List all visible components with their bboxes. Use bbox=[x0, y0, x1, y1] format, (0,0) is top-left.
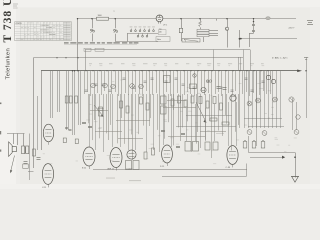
wire selector bus lower bbox=[115, 41, 158, 43]
switch S1a contact bbox=[92, 19, 94, 29]
wire bottom loop bbox=[162, 176, 247, 178]
tube V2 output UL bbox=[42, 164, 53, 185]
voltage selector taps upper bbox=[130, 26, 155, 31]
tube V8 top view bbox=[201, 87, 206, 92]
tone arm bbox=[11, 156, 15, 173]
wire drop x239 bbox=[239, 30, 241, 48]
junction bbox=[77, 18, 78, 19]
wire bus C left corner bbox=[85, 50, 87, 71]
wire bbox=[171, 94, 173, 147]
wire pair bbox=[72, 71, 74, 135]
resistor R10 bbox=[184, 100, 187, 107]
rectifier tube U1 bbox=[156, 15, 163, 22]
wire bbox=[236, 102, 238, 146]
resistor R23 bbox=[152, 148, 155, 155]
switch contact K6 bbox=[262, 131, 267, 136]
wire right upper bbox=[292, 98, 294, 130]
resistor R22 bbox=[144, 152, 147, 159]
resistor R5 bbox=[69, 96, 72, 103]
resistor R11 bbox=[191, 96, 194, 103]
wire bbox=[248, 71, 250, 128]
wire bbox=[163, 94, 165, 145]
wire drop x41 bbox=[41, 71, 43, 150]
switch contact K2 bbox=[256, 98, 261, 103]
mains plug symbol bbox=[307, 20, 313, 22]
wire bbox=[244, 71, 246, 128]
resistor R25 bbox=[63, 138, 66, 143]
trimmer capacitor bbox=[139, 84, 144, 89]
wire bottom-left bus bbox=[7, 133, 25, 135]
switch contact K7 bbox=[294, 130, 299, 135]
wire drop a bbox=[13, 134, 15, 145]
resistor R9 bbox=[178, 96, 181, 103]
label bottom1 bbox=[106, 178, 115, 179]
wire selector riser bbox=[127, 33, 129, 41]
capacitor C1 pair bbox=[253, 19, 255, 25]
scale lamp row bbox=[182, 39, 200, 42]
pickup arrow bbox=[282, 156, 285, 159]
resistor R16 bbox=[199, 97, 202, 104]
label fuse block bbox=[159, 30, 167, 35]
wire bottom bus bbox=[93, 169, 247, 171]
IF transformer T1 bbox=[161, 96, 167, 104]
junction dots bus B left bbox=[72, 70, 73, 71]
wire selector bus upper bbox=[127, 33, 158, 35]
cap C8 bbox=[176, 146, 180, 148]
resistor R21 bbox=[222, 122, 229, 125]
tube V6 bbox=[162, 145, 173, 163]
wire bbox=[128, 94, 130, 150]
svg-text:4× ABC 1 + AZ 1: 4× ABC 1 + AZ 1 bbox=[272, 57, 288, 60]
resistor R14 bbox=[140, 97, 143, 104]
coil L2 with core bbox=[99, 107, 103, 116]
wire bbox=[153, 94, 155, 150]
wire riser x243 bbox=[243, 50, 245, 71]
caption text row under table bbox=[64, 42, 138, 45]
wire pair bbox=[78, 71, 80, 125]
junction bbox=[253, 18, 254, 19]
output transformer Tr bbox=[22, 146, 25, 154]
wire right link2 bbox=[248, 126, 284, 128]
wire bbox=[205, 108, 207, 141]
wire antenna drop bbox=[306, 57, 308, 118]
wire pair bbox=[57, 71, 59, 112]
resistor R13 bbox=[126, 106, 129, 113]
paper lighter top edge bbox=[0, 0, 320, 7]
junction blob bbox=[239, 38, 241, 40]
cap C6 bbox=[161, 130, 165, 132]
junction blob2 bbox=[240, 38, 242, 40]
cap C10 bbox=[37, 157, 41, 159]
wire bbox=[268, 71, 270, 128]
wire drop x37 bbox=[37, 96, 39, 150]
resistor R6 bbox=[75, 96, 78, 103]
wire bus C corner right bbox=[250, 50, 252, 71]
junction bbox=[115, 18, 116, 19]
wire rectifier to right bbox=[163, 18, 296, 20]
diagonal pot arrow 2 bbox=[196, 102, 206, 122]
heater ladder row2 bbox=[197, 32, 209, 34]
wire bus B main bbox=[41, 70, 299, 72]
wire links band bbox=[90, 101, 226, 139]
resistor R1 heater dropper bbox=[97, 17, 109, 20]
wire link2 bbox=[176, 126, 236, 128]
junction bbox=[91, 18, 92, 19]
label boxes on bus C bbox=[84, 48, 91, 51]
wire to rectifier bbox=[109, 18, 157, 20]
capacitor ticks on comb bbox=[85, 78, 265, 91]
tube V11 small bbox=[271, 79, 275, 83]
resistor R12 bbox=[120, 101, 123, 108]
cap C14 ticks bbox=[65, 127, 68, 129]
bus B arrow end bbox=[297, 70, 302, 73]
tube V1 UCH bbox=[43, 124, 53, 142]
wire bbox=[103, 94, 105, 152]
svg-text:T 738 U: T 738 U bbox=[2, 0, 14, 43]
wire bbox=[256, 71, 258, 128]
wire drop c bbox=[23, 134, 25, 147]
wire drop b bbox=[17, 134, 19, 146]
switch contact K3 bbox=[273, 97, 278, 102]
wire bbox=[120, 94, 122, 147]
wiring labels row bbox=[89, 63, 264, 66]
label bottom2 bbox=[129, 180, 141, 181]
wire density band bbox=[89, 94, 239, 152]
wire bbox=[146, 94, 148, 152]
trimmer capacitor bbox=[111, 84, 116, 89]
speaker LS bbox=[9, 142, 13, 157]
cap C3 bbox=[223, 87, 227, 89]
switch contact K8 bbox=[296, 115, 300, 119]
wire bbox=[280, 71, 282, 128]
resistor R3 zigzag bbox=[200, 19, 202, 21]
wire right horizontal bbox=[249, 152, 296, 154]
coil L4 bbox=[213, 142, 218, 150]
bus junctions bbox=[85, 70, 268, 71]
junction bbox=[226, 18, 227, 19]
wire riser x213 bbox=[213, 50, 215, 71]
wire bus A bbox=[33, 57, 243, 59]
electrolytic C13 bbox=[261, 142, 265, 149]
connector X1 bbox=[193, 74, 197, 78]
switch contact K1 bbox=[247, 101, 252, 106]
wire pair bbox=[50, 71, 52, 118]
dial lamp La2 bbox=[266, 17, 270, 20]
component value table bbox=[15, 22, 72, 41]
antenna symbol bbox=[304, 57, 308, 59]
resistor R24 bbox=[33, 149, 36, 156]
heater ladder row1 bbox=[197, 29, 209, 31]
resistor R19 bbox=[220, 103, 223, 110]
IF can T2 bbox=[126, 161, 132, 170]
potentiometer arrow bbox=[94, 105, 103, 116]
svg-text:Telefunken: Telefunken bbox=[6, 48, 12, 80]
wire ladder drop bbox=[203, 37, 205, 42]
wire bbox=[135, 94, 137, 150]
resistor R15 bbox=[146, 103, 149, 110]
wire right step bbox=[248, 136, 250, 153]
resistor R2 bbox=[181, 19, 183, 29]
svg-text:220 V~: 220 V~ bbox=[289, 28, 296, 30]
resistor R26 bbox=[75, 139, 78, 144]
tube V3 bbox=[83, 147, 95, 166]
coil L1 bbox=[164, 76, 171, 83]
electrolytic C12 bbox=[252, 142, 256, 149]
tube V9 indicator bbox=[230, 95, 236, 101]
svg-text:Netz: Netz bbox=[157, 38, 161, 41]
svg-text:240: 240 bbox=[159, 31, 162, 33]
svg-text:UY 1: UY 1 bbox=[163, 24, 167, 26]
resistor R7 bbox=[190, 84, 197, 89]
coil L3 bbox=[205, 142, 210, 150]
wire drop d bbox=[29, 134, 31, 181]
resistor R20 bbox=[210, 118, 217, 121]
wire bbox=[112, 94, 114, 147]
paper lighter left margin bbox=[0, 0, 16, 189]
scan edge artifact 2 bbox=[0, 131, 1, 134]
corner revision note bbox=[13, 4, 18, 5]
tube V5 round bbox=[127, 150, 136, 159]
resistor R18 bbox=[213, 97, 216, 104]
wire bbox=[195, 104, 197, 141]
wire bbox=[260, 71, 262, 128]
wire drop x33 bbox=[33, 58, 35, 168]
paper lighter bottom edge bbox=[0, 184, 320, 189]
wire riser pair x238 bbox=[238, 57, 240, 71]
heater ladder row3 bbox=[197, 35, 209, 37]
wire right upper2 bbox=[296, 102, 298, 130]
wire right link bbox=[244, 118, 282, 120]
bus A dots bbox=[56, 57, 57, 58]
wire mains lower bbox=[241, 38, 298, 40]
wire bbox=[214, 104, 216, 141]
svg-text:a: a bbox=[114, 11, 115, 13]
trimmer capacitor bbox=[91, 83, 96, 88]
cap C4 bbox=[82, 122, 86, 124]
chassis arrow bbox=[292, 176, 299, 182]
junction bbox=[199, 18, 200, 19]
wire bottom left link bbox=[28, 171, 34, 173]
voltage selector taps lower bbox=[137, 33, 148, 37]
wire pair bbox=[66, 71, 68, 130]
resistor R8 bbox=[171, 99, 174, 106]
pilot lamp La1 bbox=[227, 19, 229, 27]
wire bbox=[252, 71, 254, 128]
trimmer capacitor bbox=[130, 84, 135, 89]
label mid specks bbox=[216, 133, 224, 134]
wire mid horizontal bbox=[250, 157, 284, 159]
svg-text:1800: 1800 bbox=[98, 15, 102, 17]
wire bbox=[276, 71, 278, 128]
wire bbox=[186, 108, 188, 141]
switch S1b contact bbox=[115, 19, 117, 29]
cap C2 bbox=[217, 86, 221, 88]
switch contact K4 bbox=[289, 97, 294, 102]
wire mains drop left bbox=[77, 19, 79, 71]
wire bbox=[95, 94, 97, 150]
label specks bbox=[43, 77, 297, 164]
paper background bbox=[0, 0, 320, 189]
scan edge artifact 1 bbox=[0, 103, 1, 105]
wire bbox=[272, 71, 274, 128]
wire bbox=[264, 71, 266, 128]
cap C15 ticks bbox=[69, 129, 72, 131]
transformer label box bbox=[156, 37, 170, 42]
tick bbox=[216, 19, 218, 21]
scan edge artifact 3 bbox=[0, 150, 1, 152]
resistor R17 bbox=[206, 101, 209, 108]
cap C9 bbox=[24, 161, 28, 163]
tube V4 bbox=[110, 148, 122, 168]
cap C5 bbox=[88, 126, 92, 128]
paper tone center bbox=[20, 8, 310, 184]
wire link bbox=[186, 115, 232, 117]
IF can T3 bbox=[185, 142, 191, 152]
junction bbox=[294, 156, 296, 158]
wire bbox=[89, 94, 91, 147]
electrolytic C11 bbox=[243, 142, 247, 149]
tube V7 bbox=[227, 146, 238, 165]
wire bus C bbox=[85, 49, 250, 51]
wire mains top bbox=[78, 18, 97, 20]
cap C7 bbox=[181, 133, 185, 135]
resistor R4 bbox=[65, 96, 68, 103]
tube V10 small bbox=[266, 75, 270, 79]
junction bbox=[180, 18, 181, 19]
wire right drop bbox=[295, 153, 297, 178]
wire bbox=[228, 102, 230, 146]
wire comb verticals bbox=[85, 71, 271, 160]
switch contact K5 bbox=[247, 130, 252, 135]
trimmer capacitor bbox=[103, 83, 108, 88]
contact pair bbox=[206, 80, 208, 82]
